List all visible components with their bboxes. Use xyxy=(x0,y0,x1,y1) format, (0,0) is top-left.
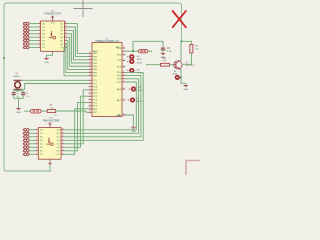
svg-text:3: 3 xyxy=(39,26,40,28)
svg-text:16: 16 xyxy=(61,139,63,141)
svg-text:18: 18 xyxy=(61,132,63,134)
svg-text:9: 9 xyxy=(123,74,124,76)
svg-text:9: 9 xyxy=(123,59,124,61)
svg-text:16MHz: 16MHz xyxy=(13,76,20,78)
svg-text:10: 10 xyxy=(89,108,91,110)
svg-text:9: 9 xyxy=(123,71,124,73)
svg-text:19: 19 xyxy=(65,22,67,24)
svg-text:GND: GND xyxy=(16,112,21,114)
svg-text:9: 9 xyxy=(39,46,40,48)
svg-text:9: 9 xyxy=(123,77,124,79)
svg-text:12: 12 xyxy=(89,52,91,54)
svg-text:12: 12 xyxy=(61,153,63,155)
svg-text:7: 7 xyxy=(36,146,37,148)
svg-text:9: 9 xyxy=(123,88,124,90)
svg-text:11: 11 xyxy=(89,111,91,113)
svg-text:1: 1 xyxy=(90,79,91,81)
svg-text:9: 9 xyxy=(90,104,91,106)
svg-text:9: 9 xyxy=(36,153,37,155)
svg-text:13: 13 xyxy=(89,55,91,57)
svg-text:GND: GND xyxy=(117,115,122,117)
svg-text:5: 5 xyxy=(90,92,91,94)
svg-text:2: 2 xyxy=(36,128,37,130)
svg-text:15: 15 xyxy=(89,62,91,64)
svg-text:8: 8 xyxy=(36,149,37,151)
svg-text:PD01: PD01 xyxy=(137,62,143,64)
svg-text:9: 9 xyxy=(123,47,124,49)
svg-text:4: 4 xyxy=(90,88,91,90)
svg-text:7: 7 xyxy=(90,98,91,100)
svg-text:9: 9 xyxy=(123,65,124,67)
svg-text:AREF: AREF xyxy=(93,50,99,53)
svg-text:ATMEGA32(MP)-AU: ATMEGA32(MP)-AU xyxy=(95,39,119,43)
svg-text:22p: 22p xyxy=(16,96,19,98)
svg-text:3: 3 xyxy=(36,132,37,134)
svg-text:ADC7: ADC7 xyxy=(137,100,144,103)
svg-text:9: 9 xyxy=(123,53,124,55)
svg-text:9: 9 xyxy=(123,81,124,83)
svg-text:19: 19 xyxy=(61,128,63,130)
svg-text:8: 8 xyxy=(90,101,91,103)
svg-text:16: 16 xyxy=(89,65,91,67)
svg-text:GND: GND xyxy=(44,62,49,64)
svg-text:PD02: PD02 xyxy=(137,73,143,75)
svg-text:6: 6 xyxy=(36,142,37,144)
svg-text:15: 15 xyxy=(61,142,63,144)
svg-text:2: 2 xyxy=(39,22,40,24)
svg-text:7: 7 xyxy=(39,39,40,41)
svg-text:2: 2 xyxy=(90,82,91,84)
svg-text:2SC4123: 2SC4123 xyxy=(186,65,196,67)
svg-text:14: 14 xyxy=(89,58,91,60)
svg-text:9: 9 xyxy=(123,99,124,101)
svg-text:3: 3 xyxy=(90,85,91,87)
svg-text:14: 14 xyxy=(65,39,67,41)
svg-text:5: 5 xyxy=(36,139,37,141)
svg-text:17: 17 xyxy=(65,29,67,31)
svg-text:18: 18 xyxy=(89,71,91,73)
svg-text:C?: C? xyxy=(55,115,57,117)
svg-text:19: 19 xyxy=(89,74,91,76)
svg-text:GND: GND xyxy=(131,131,136,133)
svg-text:RXD: RXD xyxy=(137,59,142,61)
svg-text:16: 16 xyxy=(65,32,67,34)
svg-text:GND: GND xyxy=(183,89,188,91)
svg-text:15: 15 xyxy=(65,36,67,38)
svg-text:18: 18 xyxy=(65,26,67,28)
svg-text:C1: C1 xyxy=(16,93,18,95)
svg-text:C2: C2 xyxy=(26,93,28,95)
svg-text:6: 6 xyxy=(90,95,91,97)
svg-text:74HC/HCT595: 74HC/HCT595 xyxy=(42,118,60,122)
svg-text:17: 17 xyxy=(89,68,91,70)
svg-text:6: 6 xyxy=(39,36,40,38)
svg-text:0.1u: 0.1u xyxy=(167,51,172,53)
svg-text:8: 8 xyxy=(39,43,40,45)
svg-text:17: 17 xyxy=(61,135,63,137)
svg-text:4: 4 xyxy=(39,29,40,31)
svg-text:5: 5 xyxy=(39,32,40,34)
svg-text:4: 4 xyxy=(36,135,37,137)
svg-text:13: 13 xyxy=(61,149,63,151)
svg-text:14: 14 xyxy=(61,146,63,148)
svg-text:22p: 22p xyxy=(26,96,29,98)
